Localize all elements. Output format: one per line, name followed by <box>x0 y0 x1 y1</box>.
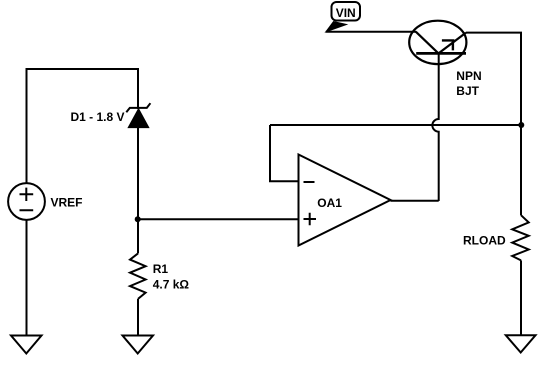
transistor Q1 (NPN BJT) <box>409 21 466 64</box>
label RLOAD <box>463 234 506 248</box>
svg-text:RLOAD: RLOAD <box>463 234 506 248</box>
wire R1 to ground <box>137 299 139 336</box>
wire RLOAD to ground <box>520 260 522 335</box>
wire top-left horizontal (VREF top to D1 top) <box>27 69 139 183</box>
ground (VREF) <box>11 336 42 354</box>
wire VREF bottom to ground <box>26 220 28 336</box>
svg-text:VREF: VREF <box>51 195 83 209</box>
wire node to op-amp + input <box>138 218 299 220</box>
resistor R1 <box>130 253 146 299</box>
wire D1 to node <box>137 127 139 219</box>
ground (RLOAD) <box>506 335 536 352</box>
resistor RLOAD <box>512 215 529 260</box>
label OA1 <box>317 196 342 210</box>
wire transistor base lead with hop over feedback <box>432 53 438 201</box>
label R1 4.7 kΩ <box>153 262 190 292</box>
svg-text:OA1: OA1 <box>317 196 342 210</box>
wire feedback horizontal (emitter node to left) <box>270 124 521 126</box>
node (D1 / R1 / op-amp + input junction) <box>135 216 141 222</box>
svg-text:NPN: NPN <box>456 69 481 83</box>
net flag VIN <box>326 2 360 32</box>
zener diode D1 <box>126 103 150 127</box>
label D1 - 1.8 V <box>70 110 124 124</box>
wire transistor emitter to right rail <box>466 33 521 216</box>
node (feedback / emitter rail junction) <box>518 122 524 128</box>
svg-text:BJT: BJT <box>456 84 479 98</box>
op-amp OA1 <box>299 155 391 246</box>
wire node to R1 <box>137 219 139 253</box>
svg-text:VIN: VIN <box>336 6 356 20</box>
svg-text:R1: R1 <box>153 262 169 276</box>
voltage source VREF <box>8 183 45 220</box>
label NPN BJT <box>456 69 481 98</box>
wire op-amp output to base lead <box>391 200 439 202</box>
svg-text:4.7 kΩ: 4.7 kΩ <box>153 278 190 292</box>
label VREF <box>51 195 83 209</box>
ground (R1) <box>123 336 154 354</box>
wire VIN to transistor collector <box>326 31 416 33</box>
svg-text:D1 - 1.8 V: D1 - 1.8 V <box>70 110 124 124</box>
wire feedback down-left to inverting input <box>270 125 299 181</box>
